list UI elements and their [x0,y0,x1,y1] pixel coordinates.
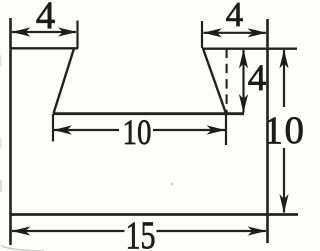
scan speck [171,183,174,186]
arrowhead 4 top-right pointing right [248,28,267,37]
arrowhead 4 vertical pointing up [239,50,248,69]
svg-text:4: 4 [248,58,267,99]
extension line right tab [201,21,203,48]
right slant wall [203,49,226,114]
arrowhead 4 top-left pointing right [58,27,77,36]
extension line floor left [52,114,54,142]
dashed depth line [226,49,228,115]
svg-text:4: 4 [36,0,56,37]
arrowhead 15 pointing right [248,226,267,235]
dimension line 10 floor right part [153,129,225,131]
arrowhead 15 pointing left [12,226,31,235]
bottom edge with extension [10,213,299,216]
arrowhead 10 right pointing up [279,50,288,69]
arrowhead 4 top-right pointing left [203,28,222,37]
groove floor [53,112,244,115]
svg-text:10: 10 [123,112,152,152]
scan smudge bottom-left [1,246,44,251]
arrowhead 4 vertical pointing down [239,94,248,113]
left outer edge [9,18,12,245]
top edge right tab with extension [202,48,297,50]
arrowhead 4 top-left pointing left [12,27,31,36]
dimension line 4 top-right [204,32,267,34]
dimension line 15 right part [157,230,267,232]
svg-text:0: 0 [284,109,304,152]
arrowhead 10 right pointing down [279,194,288,213]
dimension line 4 vertical [242,50,244,113]
svg-text:15: 15 [126,214,156,251]
dimension line 10 right above text [283,50,285,107]
dimension line 10 floor left part [54,129,119,131]
dimension line 15 left part [12,230,125,232]
svg-text:4: 4 [226,0,244,34]
extension line left tab [76,21,78,49]
arrowhead 10 floor pointing right [207,125,226,134]
dimension line 10 right below text [283,148,285,213]
scan specks left edge [0,55,2,67]
dimension line 4 top-left [12,31,76,33]
svg-text:1: 1 [263,109,283,152]
right outer edge [266,19,269,243]
top edge left tab [10,47,79,49]
arrowhead 10 floor pointing left [53,125,72,134]
extension line floor right [225,114,227,145]
left slant wall [54,49,75,114]
